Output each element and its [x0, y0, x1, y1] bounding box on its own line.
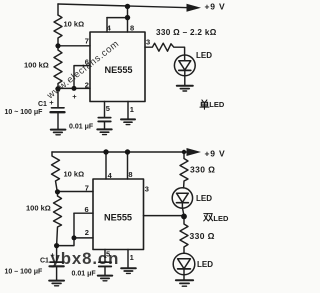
- svg-text:+9 V: +9 V: [205, 149, 226, 159]
- svg-text:100 kΩ: 100 kΩ: [24, 61, 49, 70]
- svg-text:8: 8: [128, 170, 132, 179]
- svg-text:6: 6: [85, 58, 89, 67]
- svg-text:8: 8: [130, 23, 134, 32]
- svg-text:NE555: NE555: [104, 213, 132, 223]
- svg-text:100 kΩ: 100 kΩ: [26, 204, 51, 213]
- svg-text:+: +: [72, 92, 77, 101]
- svg-text:330 Ω: 330 Ω: [190, 165, 215, 175]
- svg-text:330 Ω: 330 Ω: [190, 231, 215, 241]
- svg-text:7: 7: [85, 37, 89, 46]
- svg-text:C1: C1: [38, 101, 47, 108]
- svg-text:3: 3: [145, 185, 149, 194]
- svg-text:LED: LED: [209, 100, 225, 109]
- svg-text:LED: LED: [196, 194, 212, 203]
- svg-text:2: 2: [85, 228, 89, 237]
- svg-text:LED: LED: [196, 51, 212, 60]
- svg-text:LED: LED: [197, 260, 213, 269]
- svg-text:C1: C1: [40, 257, 49, 264]
- svg-text:3: 3: [146, 38, 150, 47]
- svg-text:+9 V: +9 V: [205, 1, 226, 11]
- svg-text:10 – 100 μF: 10 – 100 μF: [5, 268, 43, 275]
- svg-text:5: 5: [106, 104, 110, 113]
- svg-text:0.01 μF: 0.01 μF: [72, 270, 97, 277]
- svg-text:10 kΩ: 10 kΩ: [64, 20, 85, 29]
- svg-text:1: 1: [130, 253, 134, 262]
- svg-text:10 kΩ: 10 kΩ: [64, 169, 85, 178]
- svg-text:1: 1: [130, 105, 134, 114]
- svg-text:6: 6: [85, 205, 89, 214]
- svg-text:ybx8.cn: ybx8.cn: [51, 249, 120, 268]
- svg-text:+: +: [49, 98, 54, 107]
- svg-text:330 Ω – 2.2 kΩ: 330 Ω – 2.2 kΩ: [156, 28, 217, 37]
- svg-text:10 ~ 100 μF: 10 ~ 100 μF: [5, 109, 44, 116]
- svg-text:7: 7: [85, 183, 89, 192]
- svg-text:2: 2: [85, 80, 89, 89]
- svg-text:0.01 μF: 0.01 μF: [69, 124, 94, 131]
- svg-text:LED: LED: [213, 214, 229, 223]
- svg-text:NE555: NE555: [104, 65, 132, 75]
